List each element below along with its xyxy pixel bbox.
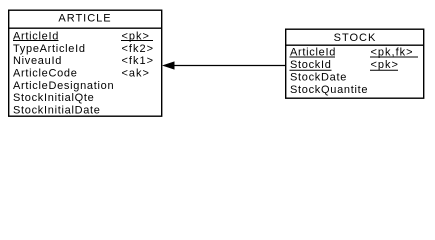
underline pk,fk (STOCK): [370, 56, 418, 58]
table ARTICLE box: [9, 10, 162, 116]
svg-text:NiveauId: NiveauId: [13, 55, 62, 67]
table STOCK header divider: [285, 44, 424, 46]
table STOCK box: [286, 29, 424, 98]
svg-text:StockDate: StockDate: [290, 72, 347, 84]
svg-text:TypeArticleId: TypeArticleId: [13, 43, 86, 55]
svg-text:StockInitialQte: StockInitialQte: [13, 92, 94, 104]
reference wire STOCK to ARTICLE: [170, 65, 285, 67]
svg-text:<fk1>: <fk1>: [122, 55, 155, 67]
reference arrowhead: [162, 61, 175, 69]
svg-text:STOCK: STOCK: [334, 32, 377, 44]
svg-text:<ak>: <ak>: [122, 68, 150, 80]
underline ArticleId (ARTICLE): [13, 40, 59, 42]
svg-text:ArticleDesignation: ArticleDesignation: [13, 80, 114, 92]
underline StockId (STOCK): [290, 69, 332, 71]
underline ArticleId (STOCK): [290, 56, 336, 58]
svg-text:StockInitialDate: StockInitialDate: [13, 105, 101, 117]
svg-text:StockQuantite: StockQuantite: [290, 84, 368, 96]
svg-text:ArticleCode: ArticleCode: [13, 68, 78, 80]
svg-text:<pk>: <pk>: [371, 59, 399, 71]
underline pk (ARTICLE): [121, 40, 153, 42]
svg-text:StockId: StockId: [290, 59, 332, 71]
svg-text:<fk2>: <fk2>: [122, 43, 155, 55]
table ARTICLE header divider: [8, 27, 162, 29]
underline pk (STOCK): [370, 69, 398, 71]
svg-text:ARTICLE: ARTICLE: [58, 13, 111, 25]
